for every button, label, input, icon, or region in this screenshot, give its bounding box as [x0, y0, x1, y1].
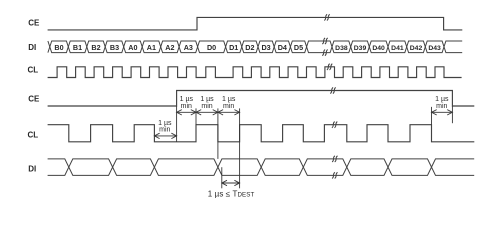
- wire CE row1 waveform: [48, 17, 463, 30]
- extension line of CE row2 falling edge: [451, 106, 453, 123]
- svg-text:D5: D5: [294, 43, 303, 52]
- svg-text:B3: B3: [110, 43, 119, 52]
- svg-text:A0: A0: [128, 43, 137, 52]
- break mark on CL row1 pulse top: [327, 64, 332, 70]
- svg-text:min: min: [436, 103, 447, 110]
- dimension arrow: CL low width (1 us min): [218, 110, 240, 115]
- wire CL row2 clock waveform: [48, 125, 475, 142]
- svg-text:D1: D1: [229, 43, 238, 52]
- dimension arrow: data setup TDEST: [222, 180, 240, 185]
- signal label CE (serial-in chip enable, row 1): [28, 18, 40, 27]
- svg-text:min: min: [201, 103, 212, 110]
- signal label CE (row 2, expanded timing): [28, 94, 40, 103]
- svg-text:DI: DI: [28, 43, 36, 52]
- svg-text:B2: B2: [91, 43, 100, 52]
- svg-text:D43: D43: [428, 45, 441, 52]
- svg-text:D38: D38: [335, 45, 348, 52]
- label 1 us <= T DEST: [208, 189, 255, 198]
- svg-text:1 µs ≤ TDEST: 1 µs ≤ TDEST: [208, 189, 255, 198]
- svg-text:CL: CL: [27, 130, 38, 139]
- wire CE row2 waveform: [48, 91, 475, 107]
- svg-text:CE: CE: [28, 18, 40, 27]
- break marks on DI row2 bus: [332, 156, 337, 179]
- svg-text:D0: D0: [207, 43, 216, 52]
- DI row1 data labels B0-B3 A0-A3 D0-D5 D38-D43: [54, 43, 441, 52]
- dimension arrow: CL fall to CE rise (1 us min, left): [154, 133, 176, 138]
- svg-text:CE: CE: [28, 94, 40, 103]
- svg-text:CL: CL: [27, 65, 38, 74]
- svg-text:min: min: [159, 127, 170, 134]
- tick line at end of DI transition (x=221.8): [221, 167, 223, 188]
- extension line of CE row2 rising edge: [176, 106, 178, 142]
- dimension arrow: CE rise to CL rise (1 us min): [177, 110, 196, 115]
- label 1 us min (over third arrow): [222, 96, 236, 110]
- break marks on DI row1 bus: [322, 38, 327, 56]
- tick line at CL row2 fall (x=217.9): [217, 108, 219, 158]
- svg-text:D3: D3: [261, 43, 270, 52]
- svg-text:B1: B1: [73, 43, 82, 52]
- svg-text:D4: D4: [278, 43, 287, 52]
- svg-text:A3: A3: [184, 43, 193, 52]
- label 1 us min (left of CE rise): [158, 120, 172, 134]
- svg-text:D39: D39: [354, 45, 367, 52]
- signal label DI (row 1): [28, 43, 36, 52]
- wire DI row1 bus outline: [48, 41, 462, 53]
- dimension arrow: CL high width (1 us min): [196, 110, 218, 115]
- svg-text:D42: D42: [410, 45, 423, 52]
- svg-text:A2: A2: [165, 43, 174, 52]
- signal label CL (row 2, expanded timing): [27, 130, 38, 139]
- wire CL row1 clock waveform: [48, 67, 462, 78]
- dimension arrow: last CL fall to CE fall (1 us min, right): [432, 110, 453, 115]
- label 1 us min (over first arrow): [180, 96, 194, 110]
- label 1 us min (right): [435, 96, 449, 110]
- break mark on CE row2 high line: [330, 87, 335, 93]
- extension line of last CL row2 falling edge: [431, 107, 433, 125]
- signal label CL (row 1): [27, 65, 38, 74]
- svg-text:DI: DI: [28, 164, 36, 173]
- long reference line at CL row2 rise (x=239.6) down to DI row: [239, 108, 241, 188]
- signal label DI (row 2, expanded timing): [28, 164, 36, 173]
- break mark on CE row1 high line: [324, 14, 329, 20]
- svg-text:min: min: [181, 103, 192, 110]
- svg-text:A1: A1: [147, 43, 156, 52]
- svg-text:B0: B0: [54, 43, 63, 52]
- svg-text:D41: D41: [391, 45, 404, 52]
- svg-text:D40: D40: [372, 45, 385, 52]
- svg-text:min: min: [223, 103, 234, 110]
- tick line at first CL row2 rise (x=196): [195, 108, 197, 124]
- svg-text:D2: D2: [245, 43, 254, 52]
- wire DI row2 bus outline: [48, 159, 475, 176]
- label 1 us min (over second arrow): [200, 96, 214, 110]
- break mark on CL row2 pulse top: [332, 122, 337, 128]
